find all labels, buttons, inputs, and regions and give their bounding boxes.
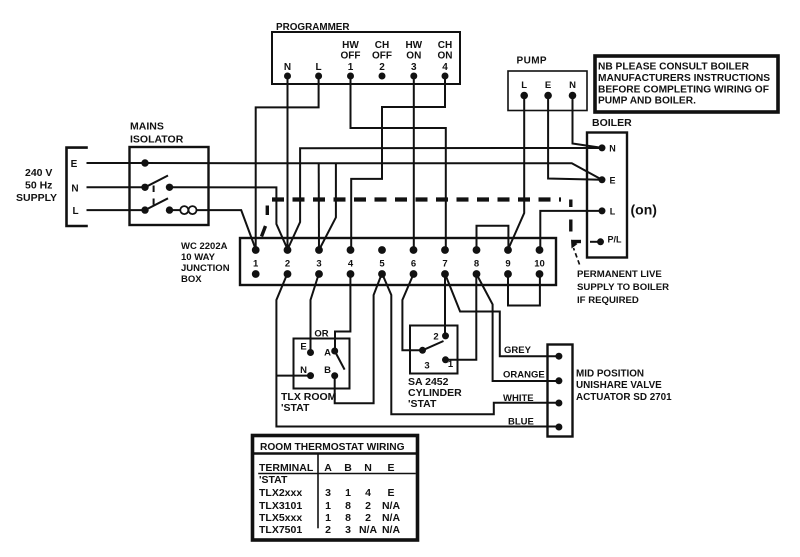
svg-text:TLX3101: TLX3101 bbox=[259, 500, 302, 512]
svg-text:SUPPLY TO BOILER: SUPPLY TO BOILER bbox=[577, 282, 669, 293]
svg-text:OR: OR bbox=[314, 329, 328, 340]
svg-text:ROOM THERMOSTAT WIRING: ROOM THERMOSTAT WIRING bbox=[260, 442, 405, 453]
svg-text:TLX5xxx: TLX5xxx bbox=[259, 512, 302, 524]
svg-text:BOX: BOX bbox=[181, 274, 202, 285]
svg-text:'STAT: 'STAT bbox=[281, 402, 310, 414]
svg-text:3: 3 bbox=[411, 62, 417, 73]
svg-text:E: E bbox=[300, 342, 306, 353]
svg-text:P/L: P/L bbox=[607, 235, 622, 245]
svg-text:IF REQUIRED: IF REQUIRED bbox=[577, 295, 639, 306]
svg-text:E: E bbox=[609, 176, 615, 186]
svg-text:WC 2202A: WC 2202A bbox=[181, 241, 228, 252]
svg-text:GREY: GREY bbox=[504, 345, 532, 356]
svg-text:CH: CH bbox=[375, 40, 389, 51]
svg-text:4: 4 bbox=[442, 62, 448, 73]
svg-text:N/A: N/A bbox=[382, 524, 401, 536]
svg-text:OFF: OFF bbox=[341, 51, 361, 62]
svg-text:OFF: OFF bbox=[372, 51, 392, 62]
svg-text:'STAT: 'STAT bbox=[259, 474, 288, 486]
svg-text:1: 1 bbox=[345, 487, 351, 499]
svg-text:240 V: 240 V bbox=[25, 167, 52, 179]
svg-text:N: N bbox=[284, 62, 291, 73]
svg-text:3: 3 bbox=[345, 524, 351, 536]
svg-text:E: E bbox=[545, 80, 551, 91]
svg-text:E: E bbox=[387, 487, 394, 499]
svg-text:MAINS: MAINS bbox=[130, 121, 164, 133]
svg-text:1: 1 bbox=[448, 359, 454, 370]
svg-text:PROGRAMMER: PROGRAMMER bbox=[276, 22, 350, 33]
svg-text:50 Hz: 50 Hz bbox=[25, 180, 52, 192]
svg-text:L: L bbox=[316, 62, 322, 73]
svg-text:BOILER: BOILER bbox=[592, 117, 632, 129]
svg-text:8: 8 bbox=[345, 500, 351, 512]
svg-text:N/A: N/A bbox=[382, 500, 401, 512]
svg-text:10 WAY: 10 WAY bbox=[181, 252, 216, 263]
svg-text:A: A bbox=[324, 462, 332, 474]
svg-text:8: 8 bbox=[474, 259, 479, 270]
svg-text:N: N bbox=[71, 184, 78, 195]
svg-text:PUMP: PUMP bbox=[517, 56, 548, 67]
svg-text:CH: CH bbox=[438, 40, 452, 51]
svg-text:L: L bbox=[610, 207, 616, 217]
svg-text:B: B bbox=[344, 462, 352, 474]
svg-text:6: 6 bbox=[411, 259, 416, 270]
svg-text:1: 1 bbox=[253, 259, 259, 270]
svg-text:TLX2xxx: TLX2xxx bbox=[259, 487, 302, 499]
svg-text:3: 3 bbox=[424, 361, 429, 372]
svg-text:'STAT: 'STAT bbox=[408, 398, 437, 410]
svg-text:L: L bbox=[521, 80, 527, 91]
svg-text:ON: ON bbox=[406, 51, 421, 62]
svg-text:BLUE: BLUE bbox=[508, 417, 534, 428]
svg-text:N: N bbox=[364, 462, 372, 474]
svg-text:MANUFACTURERS INSTRUCTIONS: MANUFACTURERS INSTRUCTIONS bbox=[598, 73, 770, 84]
svg-text:E: E bbox=[387, 462, 394, 474]
svg-text:B: B bbox=[324, 365, 331, 376]
svg-text:2: 2 bbox=[285, 259, 290, 270]
svg-text:1: 1 bbox=[348, 62, 354, 73]
svg-text:10: 10 bbox=[534, 259, 545, 270]
svg-text:MID POSITION: MID POSITION bbox=[576, 369, 644, 380]
svg-text:ON: ON bbox=[438, 51, 453, 62]
svg-text:1: 1 bbox=[325, 512, 331, 524]
svg-text:4: 4 bbox=[365, 487, 371, 499]
svg-text:ORANGE: ORANGE bbox=[503, 370, 545, 381]
svg-text:JUNCTION: JUNCTION bbox=[181, 263, 230, 274]
svg-text:8: 8 bbox=[345, 512, 351, 524]
svg-text:NB PLEASE CONSULT BOILER: NB PLEASE CONSULT BOILER bbox=[598, 62, 750, 73]
svg-text:N: N bbox=[300, 365, 307, 376]
svg-text:(on): (on) bbox=[631, 202, 657, 218]
svg-text:HW: HW bbox=[342, 40, 359, 51]
svg-text:3: 3 bbox=[316, 259, 321, 270]
svg-text:N/A: N/A bbox=[359, 524, 378, 536]
svg-text:WHITE: WHITE bbox=[503, 393, 534, 404]
svg-text:ISOLATOR: ISOLATOR bbox=[130, 134, 184, 146]
svg-text:E: E bbox=[71, 159, 78, 170]
svg-text:9: 9 bbox=[505, 259, 510, 270]
svg-text:1: 1 bbox=[325, 500, 331, 512]
svg-text:2: 2 bbox=[325, 524, 331, 536]
svg-text:TERMINAL: TERMINAL bbox=[259, 462, 314, 474]
svg-text:UNISHARE VALVE: UNISHARE VALVE bbox=[576, 380, 662, 391]
svg-text:3: 3 bbox=[325, 487, 331, 499]
svg-text:4: 4 bbox=[348, 259, 354, 270]
svg-text:A: A bbox=[324, 348, 331, 359]
svg-text:2: 2 bbox=[433, 332, 438, 343]
svg-text:5: 5 bbox=[379, 259, 385, 270]
svg-text:N: N bbox=[569, 80, 576, 91]
svg-text:N/A: N/A bbox=[382, 512, 401, 524]
svg-text:2: 2 bbox=[365, 512, 371, 524]
svg-text:N: N bbox=[609, 144, 616, 154]
svg-text:2: 2 bbox=[365, 500, 371, 512]
svg-text:BEFORE COMPLETING WIRING OF: BEFORE COMPLETING WIRING OF bbox=[598, 84, 769, 95]
svg-text:7: 7 bbox=[442, 259, 447, 270]
svg-text:ACTUATOR SD 2701: ACTUATOR SD 2701 bbox=[576, 392, 672, 403]
svg-text:SUPPLY: SUPPLY bbox=[16, 192, 57, 204]
svg-text:PUMP AND BOILER.: PUMP AND BOILER. bbox=[598, 96, 696, 107]
svg-text:L: L bbox=[72, 206, 78, 217]
svg-text:TLX7501: TLX7501 bbox=[259, 524, 302, 536]
svg-text:2: 2 bbox=[379, 62, 385, 73]
svg-text:PERMANENT LIVE: PERMANENT LIVE bbox=[577, 269, 662, 280]
svg-text:HW: HW bbox=[405, 40, 422, 51]
